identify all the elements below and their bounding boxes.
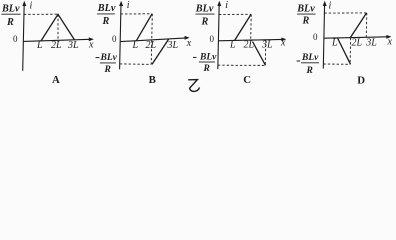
curve D falling segment L to 2L bbox=[338, 38, 351, 64]
svg-text:R: R bbox=[302, 16, 310, 27]
dashed vertical 3L D bbox=[365, 13, 368, 37]
svg-text:2L: 2L bbox=[244, 40, 255, 51]
curve D rising segment 2L to 3L bbox=[351, 13, 367, 37]
svg-text:R: R bbox=[201, 17, 209, 28]
svg-text:BLv: BLv bbox=[301, 53, 319, 63]
fraction -BLv/R B (negative) bbox=[96, 57, 100, 59]
svg-text:R: R bbox=[102, 16, 110, 27]
svg-text:x: x bbox=[280, 37, 286, 48]
dashed max level D bbox=[324, 12, 366, 14]
y-axis C bbox=[218, 4, 219, 70]
x-axis D bbox=[324, 37, 388, 38]
svg-text:0: 0 bbox=[210, 34, 215, 44]
svg-text:B: B bbox=[149, 74, 156, 86]
svg-text:i: i bbox=[225, 0, 228, 11]
svg-text:R: R bbox=[306, 66, 313, 76]
svg-text:2L: 2L bbox=[146, 40, 157, 51]
svg-text:x: x bbox=[88, 40, 94, 51]
svg-text:x: x bbox=[387, 37, 393, 48]
curve C rising segment L to 2L bbox=[235, 14, 252, 40]
svg-text:x: x bbox=[186, 38, 192, 49]
svg-text:D: D bbox=[357, 74, 365, 86]
fraction -BLv/R C (negative) bbox=[193, 56, 197, 58]
svg-text:0: 0 bbox=[13, 34, 18, 44]
x-axis C bbox=[218, 39, 282, 40]
svg-text:R: R bbox=[6, 17, 14, 28]
x-axis arrow D bbox=[386, 35, 391, 39]
y-axis arrow A bbox=[22, 1, 26, 6]
dashed vertical 3L C bbox=[264, 40, 267, 65]
y-axis arrow C bbox=[217, 1, 221, 6]
dashed max level A bbox=[24, 13, 58, 15]
svg-text:A: A bbox=[52, 74, 60, 86]
dashed vertical 2L C bbox=[250, 14, 253, 40]
svg-text:BLv: BLv bbox=[195, 3, 214, 14]
svg-text:2L: 2L bbox=[51, 40, 62, 51]
curve A: triangle bbox=[41, 14, 75, 41]
svg-text:C: C bbox=[243, 74, 251, 86]
figure label 乙 (drawn as strokes, no CJK font available) bbox=[188, 80, 199, 92]
x-axis arrow C bbox=[281, 38, 286, 42]
y-axis arrow D bbox=[323, 1, 327, 6]
svg-text:L: L bbox=[132, 40, 139, 51]
svg-text:R: R bbox=[104, 65, 111, 75]
svg-text:BLv: BLv bbox=[199, 53, 217, 63]
y-axis A bbox=[23, 4, 25, 71]
y-axis D bbox=[323, 4, 324, 69]
x-axis arrow B bbox=[185, 36, 190, 40]
svg-text:L: L bbox=[331, 37, 338, 48]
svg-text:3L: 3L bbox=[67, 40, 79, 51]
dashed -max level D bbox=[323, 63, 350, 65]
svg-text:0: 0 bbox=[112, 34, 117, 44]
dashed vertical 2L A bbox=[57, 14, 59, 40]
curve B rising segment 2L to 3L bbox=[152, 39, 169, 65]
curve C falling segment 2L to 3L bbox=[253, 42, 266, 66]
svg-text:i: i bbox=[127, 0, 130, 11]
svg-text:L: L bbox=[36, 40, 43, 51]
dashed -max level C bbox=[218, 64, 265, 66]
dashed max level C bbox=[219, 13, 251, 15]
curve B rising segment L to 2L bbox=[136, 14, 152, 41]
dashed -max level B bbox=[120, 63, 151, 66]
svg-text:i: i bbox=[329, 1, 332, 12]
svg-text:BLv: BLv bbox=[97, 3, 116, 14]
dashed jump vertical 2L B bbox=[151, 14, 152, 65]
svg-text:3L: 3L bbox=[365, 37, 377, 48]
svg-text:i: i bbox=[30, 1, 33, 12]
svg-text:R: R bbox=[203, 64, 210, 74]
svg-text:2L: 2L bbox=[352, 38, 363, 49]
x-axis A bbox=[23, 39, 90, 41]
svg-text:BLv: BLv bbox=[1, 3, 20, 14]
y-axis arrow B bbox=[119, 1, 123, 6]
y-axis B bbox=[120, 4, 121, 70]
svg-text:BLv: BLv bbox=[100, 53, 118, 63]
svg-text:3L: 3L bbox=[261, 40, 273, 51]
x-axis arrow A bbox=[89, 37, 94, 41]
svg-text:BLv: BLv bbox=[296, 3, 315, 14]
svg-text:3L: 3L bbox=[167, 40, 179, 51]
fraction -BLv/R D (negative) bbox=[297, 60, 301, 62]
dashed vertical 2L D bbox=[349, 38, 352, 65]
svg-text:L: L bbox=[229, 40, 236, 51]
svg-text:0: 0 bbox=[313, 32, 318, 42]
x-axis B bbox=[120, 38, 186, 42]
dashed max level B bbox=[121, 13, 153, 15]
